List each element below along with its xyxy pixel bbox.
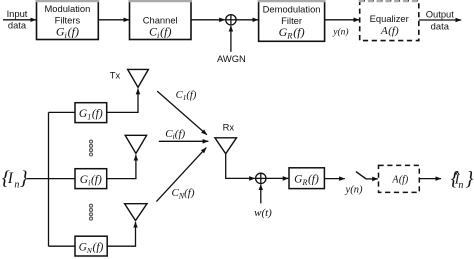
svg-text:w(t): w(t)	[254, 207, 272, 219]
node {In hat} output label	[451, 168, 474, 191]
wire AWGN input to adder	[230, 26, 232, 52]
wire channel path CN	[156, 148, 206, 202]
wire adder to GR	[266, 177, 288, 179]
svg-text:Ci(f): Ci(f)	[165, 128, 185, 141]
node ellipsis dots lower column	[90, 204, 93, 220]
wire equalizer to output	[419, 19, 461, 21]
wire demodulation filter to equalizer	[325, 19, 360, 21]
wire In to bus and Gi	[27, 178, 75, 180]
svg-text:G1(f): G1(f)	[79, 108, 103, 122]
wire bus to G1	[49, 111, 76, 113]
antenna Rx	[215, 138, 237, 154]
wire bus to GN	[49, 245, 76, 247]
block Modulation Filters Gi(f)	[36, 1, 99, 40]
svg-text:Demodulation: Demodulation	[263, 4, 321, 15]
block G1(f)	[75, 103, 107, 123]
svg-text:Output: Output	[426, 9, 455, 20]
svg-text:}: }	[465, 168, 473, 190]
svg-text:A(f): A(f)	[391, 174, 409, 185]
block Channel Ci(f)	[129, 1, 192, 40]
block Equalizer A(f) dashed	[359, 1, 420, 41]
svg-text:Gi(f): Gi(f)	[80, 174, 102, 188]
svg-text:CN(f): CN(f)	[171, 187, 194, 200]
adder S2 (noise summing junction)	[256, 173, 266, 183]
antenna Tx3	[125, 204, 147, 221]
antenna Tx2	[125, 135, 146, 153]
svg-text:I: I	[7, 170, 14, 187]
node Output data label	[426, 9, 455, 32]
svg-text:Tx: Tx	[110, 69, 121, 80]
block GR(f) receiver filter	[289, 168, 324, 189]
wire sampler to A(f)	[366, 178, 378, 180]
wire channel path C1	[157, 91, 207, 135]
wire channel to adder	[191, 19, 225, 21]
block GN(f)	[75, 236, 107, 256]
svg-text:y(n): y(n)	[345, 185, 363, 196]
adder S1 (AWGN summing junction)	[226, 15, 236, 25]
wire Gi to antenna Tx2	[107, 155, 136, 179]
svg-text:n: n	[458, 180, 463, 191]
block Gi(f)	[75, 169, 107, 189]
svg-text:Rx: Rx	[223, 122, 235, 133]
svg-text:n: n	[14, 179, 19, 190]
wire w(t) to adder	[260, 185, 262, 204]
switch sampler lever	[356, 172, 366, 179]
block Demodulation Filter GR(f)	[258, 1, 326, 42]
antenna Tx1	[128, 69, 149, 87]
node {In} input label	[2, 168, 28, 191]
svg-text:Equalizer: Equalizer	[370, 13, 409, 24]
wire G1 to antenna Tx1	[107, 89, 138, 113]
svg-text:Input: Input	[7, 8, 28, 19]
wire A(f) to output	[419, 178, 441, 180]
svg-text:Ci(f): Ci(f)	[149, 25, 172, 41]
svg-text:AWGN: AWGN	[217, 53, 246, 64]
svg-text:C1(f): C1(f)	[176, 90, 197, 102]
wire channel path Ci	[159, 140, 209, 142]
svg-text:data: data	[431, 20, 450, 31]
wire adder to demodulation filter	[236, 19, 258, 21]
wire input to modulation filters	[3, 19, 36, 21]
node Input data label	[7, 8, 28, 31]
wire GR to sampler	[324, 178, 344, 180]
wire modulation filters to channel	[98, 19, 129, 21]
svg-text:Modulation: Modulation	[44, 3, 90, 14]
block A(f) equalizer dashed	[379, 165, 420, 192]
svg-text:y(n): y(n)	[332, 26, 348, 37]
svg-text:}: }	[20, 168, 28, 190]
svg-text:data: data	[8, 20, 27, 31]
wire GN to antenna Tx3	[107, 222, 135, 246]
wire Rx antenna to adder	[226, 154, 255, 179]
wire vertical distribution bus	[48, 112, 50, 246]
svg-text:Gi(f): Gi(f)	[56, 25, 79, 41]
node ellipsis dots upper column	[90, 140, 93, 156]
svg-text:A(f): A(f)	[380, 25, 399, 37]
